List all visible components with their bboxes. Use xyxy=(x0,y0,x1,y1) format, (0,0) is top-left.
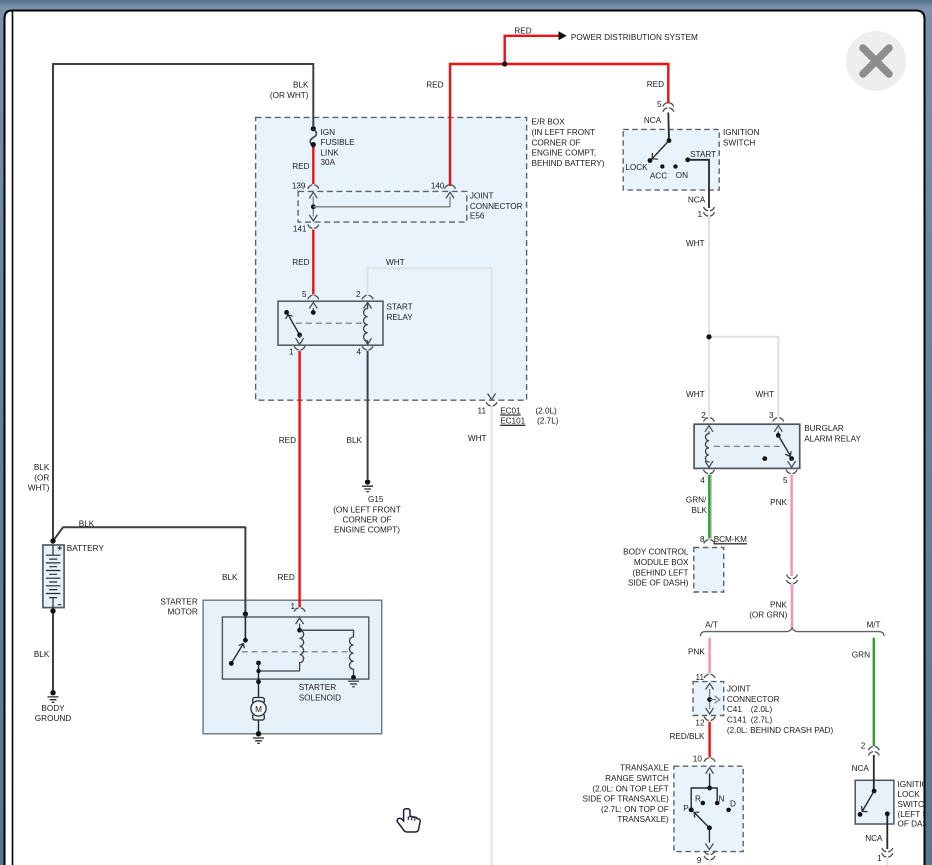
component label JOINT CONNECTOR C41 xyxy=(727,685,834,736)
svg-text:WHT): WHT) xyxy=(28,483,50,492)
net label BLK to G15 xyxy=(347,436,363,445)
net label WHT below ignition xyxy=(686,239,705,248)
pin 5 ignition xyxy=(657,100,662,109)
connector 1 start relay xyxy=(294,346,305,350)
svg-text:IGNITION: IGNITION xyxy=(898,780,932,789)
svg-text:BLK: BLK xyxy=(34,463,50,472)
start relay dashed link xyxy=(296,322,364,324)
svg-text:ACC: ACC xyxy=(650,172,667,181)
link underline EC01 xyxy=(500,414,521,416)
svg-text:LOCK: LOCK xyxy=(625,163,648,172)
svg-text:WHT: WHT xyxy=(686,239,705,248)
node link EC01 xyxy=(500,406,557,415)
wire WHT connector 1 to junction xyxy=(708,217,710,337)
wire RED branch to power distribution xyxy=(505,36,560,64)
connector 1 starter motor xyxy=(294,608,305,612)
connector 9 transaxle double xyxy=(704,851,715,860)
svg-text:(2.0L): (2.0L) xyxy=(535,406,557,415)
svg-text:5: 5 xyxy=(657,100,662,109)
pin 10 transaxle xyxy=(693,755,703,764)
node WHT junction xyxy=(706,334,711,339)
E/R box xyxy=(256,117,527,400)
svg-text:RED: RED xyxy=(292,162,309,171)
svg-text:C141: C141 xyxy=(727,716,747,725)
pin 1 ignition xyxy=(697,210,702,219)
wire PNK pin 5 to inline connector xyxy=(790,475,792,576)
svg-text:P: P xyxy=(683,804,689,813)
svg-text:NCA: NCA xyxy=(644,116,662,125)
svg-text:TRANSAXLE: TRANSAXLE xyxy=(620,764,669,773)
svg-text:RED: RED xyxy=(514,26,531,35)
wire WHT below connector 9 xyxy=(709,861,711,865)
pin 12 C41 xyxy=(695,719,705,728)
svg-text:RELAY: RELAY xyxy=(387,313,414,322)
pin 8 BCM xyxy=(700,535,705,544)
net label PNK A/T xyxy=(688,647,705,656)
component label STARTER MOTOR xyxy=(160,597,198,616)
svg-text:OF DASH): OF DASH) xyxy=(898,820,932,829)
pin 2 burglar relay xyxy=(701,411,706,420)
svg-text:BLK: BLK xyxy=(293,81,309,90)
svg-text:JOINT: JOINT xyxy=(727,685,751,694)
wire RED relay pin1 to starter motor xyxy=(298,351,300,607)
connector 141 xyxy=(308,225,319,229)
svg-text:(OR WHT): (OR WHT) xyxy=(270,91,309,100)
net label RED left drop xyxy=(426,80,443,89)
svg-text:C41: C41 xyxy=(727,705,742,714)
wire RED top bus xyxy=(450,64,668,186)
svg-text:2: 2 xyxy=(356,290,361,299)
net label BLK into starter xyxy=(222,573,238,582)
svg-text:CORNER OF: CORNER OF xyxy=(532,138,581,147)
svg-text:NCA: NCA xyxy=(852,764,870,773)
svg-text:30A: 30A xyxy=(321,158,336,167)
burglar alarm relay box xyxy=(694,424,800,468)
svg-text:(2.7L): (2.7L) xyxy=(537,417,559,426)
transaxle switch lever xyxy=(694,812,713,849)
svg-text:A/T: A/T xyxy=(705,621,718,630)
wire RED connector 141 to relay pin 5 xyxy=(312,230,314,295)
node D xyxy=(730,800,736,809)
svg-text:ENGINE COMPT): ENGINE COMPT) xyxy=(334,526,400,535)
svg-text:IGNITION: IGNITION xyxy=(723,128,759,137)
burglar relay switch xyxy=(762,426,795,468)
svg-text:WHT: WHT xyxy=(468,434,487,443)
svg-text:(2.0L): (2.0L) xyxy=(751,705,773,714)
svg-text:SIDE OF TRANSAXLE): SIDE OF TRANSAXLE) xyxy=(583,795,670,804)
svg-text:RANGE SWITCH: RANGE SWITCH xyxy=(605,774,669,783)
BCM box xyxy=(694,548,724,593)
wire GRN M/T branch to connector 2 xyxy=(873,638,875,746)
burglar relay dashed link xyxy=(714,445,782,447)
node POWER DISTRIBUTION SYSTEM xyxy=(571,33,698,42)
svg-text:RED: RED xyxy=(279,436,296,445)
pin 11 C41 xyxy=(696,673,705,682)
node junction top red bus xyxy=(502,61,507,66)
svg-text:NCA: NCA xyxy=(865,834,883,843)
svg-text:(2.0L: ON TOP LEFT: (2.0L: ON TOP LEFT xyxy=(592,784,668,793)
net label PNK (OR GRN) xyxy=(749,600,787,619)
svg-text:E56: E56 xyxy=(470,211,485,220)
ignition lock switch box xyxy=(855,780,894,824)
svg-text:(OR GRN): (OR GRN) xyxy=(749,611,787,620)
mouse cursor xyxy=(397,809,420,832)
svg-text:9: 9 xyxy=(697,856,702,865)
node link EC101 xyxy=(500,417,559,426)
net label WHT pin2 xyxy=(686,390,705,399)
connector 2 M/T double xyxy=(868,746,879,755)
wire BLK (OR WHT) battery to fusible link xyxy=(53,64,313,541)
svg-text:WHT: WHT xyxy=(386,258,405,267)
svg-text:LINK: LINK xyxy=(321,148,340,157)
svg-text:(OR: (OR xyxy=(34,473,49,482)
svg-text:BATTERY: BATTERY xyxy=(67,544,105,553)
svg-text:EC01: EC01 xyxy=(500,406,521,415)
svg-text:MOTOR: MOTOR xyxy=(167,608,197,617)
pin 5 burglar relay xyxy=(783,476,788,485)
start relay internals: pilot contact xyxy=(309,302,317,314)
component label IGNITION SWITCH xyxy=(723,128,759,147)
node link BCM-KM xyxy=(714,535,747,544)
starter solenoid inner box xyxy=(222,617,368,679)
pin 139 xyxy=(292,181,306,190)
svg-text:(ON LEFT FRONT: (ON LEFT FRONT xyxy=(333,505,401,514)
wire GRN/BLK pin 4 to connector 8 xyxy=(709,475,711,539)
net label WHT pin3 xyxy=(755,390,774,399)
ignition switch connector 5 double xyxy=(663,103,674,112)
svg-text:4: 4 xyxy=(700,476,705,485)
svg-text:141: 141 xyxy=(293,225,307,234)
PNK inline connector xyxy=(787,575,798,584)
svg-text:BODY: BODY xyxy=(41,704,65,713)
node battery positive junction xyxy=(50,538,55,543)
transaxle range switch internals xyxy=(689,768,731,813)
wire NCA connector 5 to ignition switch xyxy=(667,113,670,141)
net label WHT relay branch xyxy=(386,258,405,267)
svg-text:BLK: BLK xyxy=(34,650,50,659)
svg-text:5: 5 xyxy=(783,476,788,485)
svg-text:BLK: BLK xyxy=(79,520,95,529)
svg-text:8: 8 xyxy=(700,535,705,544)
wire WHT relay pin2 to connector 11 xyxy=(368,268,492,396)
battery internals xyxy=(46,545,62,608)
net label NCA ignition top xyxy=(644,116,662,125)
pin 141 xyxy=(293,225,307,234)
ground G15 xyxy=(362,479,373,491)
wire NCA connector 2 to ignition lock switch xyxy=(873,755,875,791)
svg-text:139: 139 xyxy=(292,181,306,190)
svg-text:EC101: EC101 xyxy=(500,417,525,426)
svg-text:SWITCH: SWITCH xyxy=(723,138,755,147)
svg-text:GROUND: GROUND xyxy=(35,714,71,723)
arrow to POWER DISTRIBUTION SYSTEM xyxy=(559,31,567,40)
svg-text:TRANSAXLE): TRANSAXLE) xyxy=(617,815,669,824)
joint connector C41 internals xyxy=(706,683,720,713)
svg-text:ENGINE COMPT,: ENGINE COMPT, xyxy=(532,149,597,158)
connector 10 transaxle xyxy=(704,758,715,762)
svg-text:FUSIBLE: FUSIBLE xyxy=(321,138,356,147)
svg-text:PNK: PNK xyxy=(770,600,787,609)
net label RED above 139 xyxy=(292,162,309,171)
svg-text:(2.0L: BEHIND CRASH PAD): (2.0L: BEHIND CRASH PAD) xyxy=(727,726,834,735)
svg-text:GRN/: GRN/ xyxy=(686,496,707,505)
connector 139 xyxy=(308,185,319,189)
ignition switch box xyxy=(623,129,719,190)
svg-text:CONNECTOR: CONNECTOR xyxy=(727,695,780,704)
net label NCA ignition bottom xyxy=(688,196,706,205)
svg-text:RED: RED xyxy=(278,573,295,582)
net label RED top xyxy=(514,26,531,35)
pin 11 E/R xyxy=(478,406,487,415)
starter motor ground xyxy=(253,731,264,743)
svg-text:BLK: BLK xyxy=(222,573,238,582)
net label RED to starter xyxy=(279,436,296,445)
svg-text:CONNECTOR: CONNECTOR xyxy=(470,202,523,211)
svg-text:(2.7L): (2.7L) xyxy=(751,716,773,725)
svg-text:G15: G15 xyxy=(368,495,384,504)
svg-text:SOLENOID: SOLENOID xyxy=(299,693,341,702)
svg-text:3: 3 xyxy=(769,411,774,420)
svg-text:1: 1 xyxy=(289,347,294,356)
wire RED fusible link to connector 139 xyxy=(312,147,314,185)
net label RED above relay xyxy=(292,258,309,267)
net label RED into starter xyxy=(278,573,295,582)
net label BLK to body ground xyxy=(34,650,50,659)
start relay switch lever xyxy=(284,310,303,344)
svg-text:BURGLAR: BURGLAR xyxy=(804,424,844,433)
svg-text:E/R BOX: E/R BOX xyxy=(532,118,566,127)
wire NCA ignition lock switch to connector 1 xyxy=(886,814,888,849)
joint connector E56 internals xyxy=(309,192,454,221)
joint connector E56 box xyxy=(298,191,467,222)
net label BLK (OR WHT) left xyxy=(28,463,50,492)
connector 11 E/R box exit xyxy=(486,394,497,406)
svg-text:BCM-KM: BCM-KM xyxy=(714,535,747,544)
svg-text:R: R xyxy=(695,794,701,803)
ignition switch connector 1 double xyxy=(704,207,715,216)
burglar relay coil xyxy=(705,426,713,468)
pin 2 M/T xyxy=(861,742,866,751)
svg-text:5: 5 xyxy=(302,290,307,299)
pin 4 burglar relay xyxy=(700,476,705,485)
net label PNK pin5 xyxy=(770,498,787,507)
svg-text:NCA: NCA xyxy=(688,196,706,205)
net label NCA M/T bottom xyxy=(865,834,883,843)
body ground xyxy=(48,690,59,702)
starter motor entry node xyxy=(243,611,248,640)
pin 5 start relay xyxy=(302,290,307,299)
ignition lock switch internals xyxy=(858,789,890,817)
ignition switch internals xyxy=(648,138,691,168)
svg-text:STARTER: STARTER xyxy=(299,683,337,692)
svg-text:LOCK: LOCK xyxy=(898,790,921,799)
pin 1 start relay xyxy=(289,347,294,356)
svg-text:12: 12 xyxy=(695,719,705,728)
starter motor feed contact xyxy=(256,661,261,698)
svg-text:(2.7L: ON TOP OF: (2.7L: ON TOP OF xyxy=(601,805,669,814)
connector 4 start relay xyxy=(362,346,373,350)
pin 9 transaxle xyxy=(697,856,702,865)
svg-text:START: START xyxy=(387,303,413,312)
node battery negative xyxy=(50,608,55,613)
node A/T xyxy=(705,621,718,630)
svg-text:11: 11 xyxy=(478,406,487,415)
burglar relay connector 5 xyxy=(786,470,797,474)
start relay coil xyxy=(364,302,372,345)
node M/T xyxy=(866,621,880,630)
connector 12 C41 xyxy=(704,717,715,721)
connector 140 xyxy=(445,185,456,189)
svg-text:11: 11 xyxy=(696,673,705,682)
battery box xyxy=(43,545,64,608)
svg-text:MODULE BOX: MODULE BOX xyxy=(634,558,689,567)
wire WHT junction branch to pins 2 and 3 xyxy=(709,337,778,417)
component label TRANSAXLE RANGE SWITCH xyxy=(583,764,670,825)
svg-text:ON: ON xyxy=(676,171,688,180)
joint connector C41 box xyxy=(693,682,724,716)
link underline EC101 xyxy=(500,424,525,426)
net label BLK horizontal branch xyxy=(79,520,95,529)
net label WHT below 11 xyxy=(468,434,487,443)
connector 5 start relay xyxy=(308,295,319,299)
connector 11 C41 xyxy=(704,674,715,678)
fusible link IGN 30A xyxy=(310,126,316,147)
wire RED ignition feed into connector 5 xyxy=(667,102,669,104)
svg-text:IGN: IGN xyxy=(321,128,336,137)
connector 8 BCM xyxy=(704,540,715,544)
svg-text:WHT: WHT xyxy=(755,390,774,399)
net label RED/BLK xyxy=(669,732,705,741)
starter solenoid hold-in coil xyxy=(300,630,359,687)
wire PNK inline connector to brace xyxy=(791,585,793,628)
svg-text:BODY CONTROL: BODY CONTROL xyxy=(623,548,689,557)
net label RED right drop xyxy=(647,80,664,89)
svg-text:WHT: WHT xyxy=(686,390,705,399)
component label STARTER SOLENOID xyxy=(299,683,341,702)
svg-text:4: 4 xyxy=(356,347,361,356)
close button xyxy=(846,31,906,91)
wire RED/BLK connector 12 to connector 10 xyxy=(708,722,710,757)
svg-text:1: 1 xyxy=(697,210,702,219)
pin 1 ignition lock xyxy=(877,854,882,863)
motor M xyxy=(251,698,266,734)
wire WHT below ignition lock connector 1 xyxy=(886,858,888,865)
component label BURGLAR ALARM RELAY xyxy=(804,424,861,443)
svg-text:2: 2 xyxy=(701,411,706,420)
component label JOINT CONNECTOR E56 xyxy=(470,192,523,221)
component label START RELAY xyxy=(387,303,414,322)
svg-text:(BEHIND LEFT: (BEHIND LEFT xyxy=(633,568,689,577)
value label IGN FUSIBLE LINK 30A xyxy=(321,128,356,167)
svg-text:M: M xyxy=(255,705,262,714)
starter solenoid switch lever xyxy=(229,638,248,666)
starter solenoid pull-in coil xyxy=(259,618,304,671)
pin 1 starter xyxy=(290,602,295,611)
component label BATTERY xyxy=(67,544,105,553)
pin 140 xyxy=(431,181,445,190)
svg-text:POWER DISTRIBUTION SYSTEM: POWER DISTRIBUTION SYSTEM xyxy=(571,33,698,42)
burglar relay connector 2 xyxy=(704,418,715,422)
svg-text:RED: RED xyxy=(292,258,309,267)
starter motor box xyxy=(203,600,382,734)
svg-text:BLK: BLK xyxy=(692,506,708,515)
svg-text:BLK: BLK xyxy=(347,436,363,445)
svg-text:STARTER: STARTER xyxy=(160,597,198,606)
transaxle range switch box xyxy=(674,766,743,851)
start relay box xyxy=(278,301,383,345)
svg-text:N: N xyxy=(719,795,725,804)
node R xyxy=(695,794,701,803)
svg-text:(IN LEFT FRONT: (IN LEFT FRONT xyxy=(532,128,596,137)
pin 3 burglar relay xyxy=(769,411,774,420)
burglar relay connector 3 xyxy=(773,418,784,422)
svg-text:RED: RED xyxy=(647,80,664,89)
burglar relay connector 4 xyxy=(704,470,715,474)
node P xyxy=(683,804,689,813)
component label BODY CONTROL MODULE BOX xyxy=(623,548,689,588)
ignition lock connector 1 double xyxy=(882,848,893,857)
pin 2 start relay xyxy=(356,290,361,299)
svg-text:140: 140 xyxy=(431,181,445,190)
net label GRN/BLK xyxy=(686,496,708,515)
connector 2 start relay xyxy=(362,295,373,299)
component label E/R BOX xyxy=(532,118,605,168)
wire WHT below connector 11 xyxy=(491,407,493,865)
svg-text:(LEFT SIDE: (LEFT SIDE xyxy=(898,810,932,819)
node START xyxy=(690,150,716,159)
wire BLK battery branch to starter motor xyxy=(53,527,245,618)
node ACC xyxy=(650,172,667,181)
ground label BODY GROUND xyxy=(35,704,71,723)
link underline BCM-KM xyxy=(714,543,748,545)
svg-text:1: 1 xyxy=(877,854,882,863)
starter solenoid dashed link xyxy=(242,651,350,653)
net label GRN M/T xyxy=(852,651,870,660)
svg-text:JOINT: JOINT xyxy=(470,192,494,201)
svg-text:CORNER OF: CORNER OF xyxy=(342,516,391,525)
wire PNK A/T branch to connector 11 xyxy=(708,638,710,673)
node ON xyxy=(676,171,688,180)
node N xyxy=(719,795,725,804)
node LOCK xyxy=(625,163,648,172)
wire BLK relay pin4 to ground G15 xyxy=(367,351,369,479)
svg-text:PNK: PNK xyxy=(688,647,705,656)
net label NCA M/T top xyxy=(852,764,870,773)
net label BLK (OR WHT) top xyxy=(270,81,309,100)
wire BLK battery negative to body ground xyxy=(52,608,54,690)
svg-text:SIDE OF DASH): SIDE OF DASH) xyxy=(628,579,689,588)
A/T M/T split brace xyxy=(700,628,884,636)
svg-text:BEHIND BATTERY): BEHIND BATTERY) xyxy=(532,159,605,168)
svg-text:2: 2 xyxy=(861,742,866,751)
pin 4 start relay xyxy=(356,347,361,356)
svg-text:RED/BLK: RED/BLK xyxy=(669,732,705,741)
svg-text:10: 10 xyxy=(693,755,703,764)
wire NCA START contact to connector 1 xyxy=(688,160,709,208)
svg-text:PNK: PNK xyxy=(770,498,787,507)
svg-text:RED: RED xyxy=(426,80,443,89)
svg-text:START: START xyxy=(690,150,716,159)
component label IGNITION LOCK SWITCH xyxy=(898,780,932,829)
svg-text:GRN: GRN xyxy=(852,651,870,660)
svg-text:ALARM RELAY: ALARM RELAY xyxy=(804,435,861,444)
svg-text:D: D xyxy=(730,800,736,809)
svg-text:1: 1 xyxy=(290,602,295,611)
svg-text:M/T: M/T xyxy=(866,621,880,630)
ground label G15 xyxy=(368,495,384,504)
